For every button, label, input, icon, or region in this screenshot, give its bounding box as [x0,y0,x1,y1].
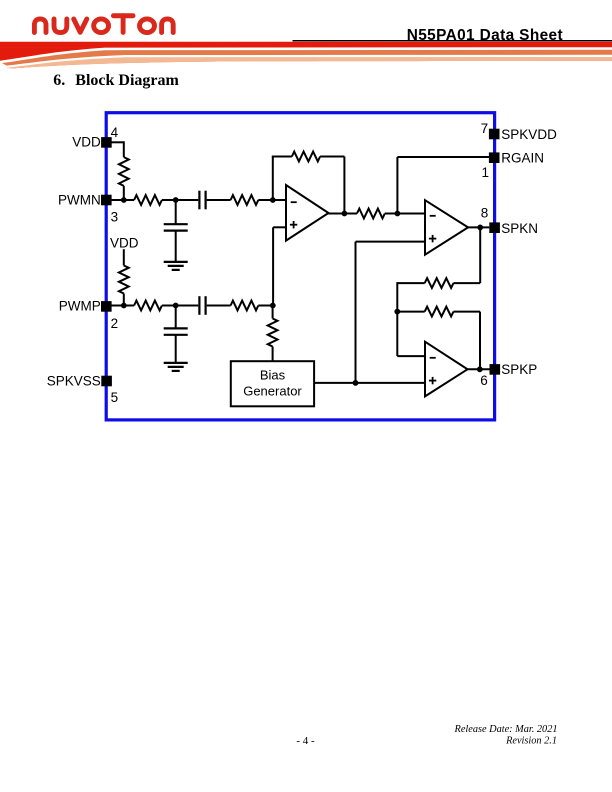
svg-text:3: 3 [111,209,119,224]
svg-text:PWMN: PWMN [58,193,101,208]
svg-text:Block Diagram: Block Diagram [75,72,179,89]
svg-text:SPKVDD: SPKVDD [501,127,557,142]
svg-text:6.: 6. [53,72,65,89]
svg-text:4: 4 [111,125,119,140]
svg-text:Revision 2.1: Revision 2.1 [505,736,557,747]
svg-text:6: 6 [480,373,488,388]
svg-text:SPKVSS: SPKVSS [47,374,101,389]
svg-text:1: 1 [481,165,489,180]
svg-text:SPKN: SPKN [501,221,538,236]
svg-text:- 4 -: - 4 - [296,735,315,747]
svg-text:Release Date: Mar. 2021: Release Date: Mar. 2021 [454,724,558,735]
svg-text:2: 2 [111,316,119,331]
svg-text:7: 7 [481,121,489,136]
svg-text:VDD: VDD [72,134,101,149]
svg-text:PWMP: PWMP [59,298,101,313]
svg-text:N55PA01 Data Sheet: N55PA01 Data Sheet [407,27,563,44]
svg-text:RGAIN: RGAIN [501,151,544,166]
svg-text:8: 8 [481,206,489,221]
svg-text:Bias: Bias [260,368,286,383]
svg-text:VDD: VDD [110,236,139,251]
svg-text:SPKP: SPKP [501,362,537,377]
svg-text:5: 5 [111,390,119,405]
svg-text:Generator: Generator [243,383,302,398]
